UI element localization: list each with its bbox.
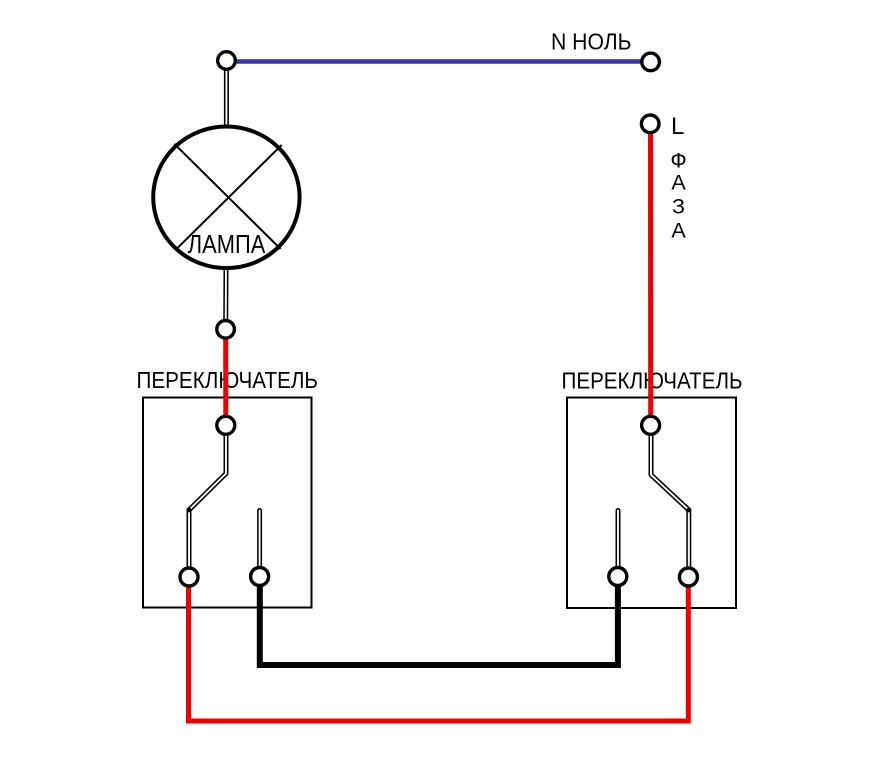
svg-text:Ф: Ф	[670, 149, 686, 173]
svg-text:L: L	[671, 113, 684, 140]
wire: red phase L down to right switch	[648, 128, 653, 428]
switch SW1 idle contact pole	[257, 511, 262, 571]
node: lamp top terminal	[218, 52, 236, 70]
node: SW2 left bottom terminal	[609, 568, 627, 586]
switch box SW2 (right)	[567, 398, 736, 609]
switch SW2 arm (double line)	[651, 430, 691, 570]
svg-text:З: З	[672, 195, 685, 219]
svg-text:А: А	[671, 219, 686, 243]
node: SW1 right bottom terminal	[251, 568, 269, 586]
wire: double-line lamp top lead	[224, 64, 229, 128]
switch SW2 idle contact pole	[616, 511, 621, 571]
wire: double-line lamp bottom lead	[223, 266, 228, 326]
svg-text:ЛАМПА: ЛАМПА	[188, 229, 266, 259]
node: SW1 common terminal	[217, 416, 235, 434]
label N НОЛЬ	[551, 29, 632, 55]
node: SW2 common terminal	[642, 416, 660, 434]
label ПЕРЕКЛЮЧАТЕЛЬ (left switch)	[137, 367, 319, 393]
node: phase terminal L	[641, 115, 659, 133]
label ЛАМПА	[188, 229, 266, 259]
wire: red from lamp bottom terminal to left switch	[223, 334, 228, 428]
wire: blue neutral N (lamp top to right terminal)	[227, 59, 651, 63]
switch box SW1 (left)	[143, 398, 312, 608]
label ФАЗА (vertical)	[670, 149, 686, 243]
wire: black traveler (left switch R-terminal to right switch L-terminal)	[260, 582, 618, 665]
wire: red bottom run (left switch L-terminal to right switch R-terminal)	[189, 582, 689, 721]
label ПЕРЕКЛЮЧАТЕЛЬ (right switch)	[562, 368, 743, 394]
svg-text:А: А	[671, 171, 686, 195]
node: lamp bottom terminal	[217, 321, 235, 339]
lamp EL1	[153, 127, 299, 269]
switch SW1 arm (double line)	[187, 430, 226, 570]
node: SW2 right bottom terminal	[679, 568, 697, 586]
node: SW1 left bottom terminal	[180, 568, 198, 586]
svg-text:N НОЛЬ: N НОЛЬ	[551, 29, 632, 55]
node: neutral right terminal	[642, 53, 660, 71]
label L	[671, 113, 684, 140]
